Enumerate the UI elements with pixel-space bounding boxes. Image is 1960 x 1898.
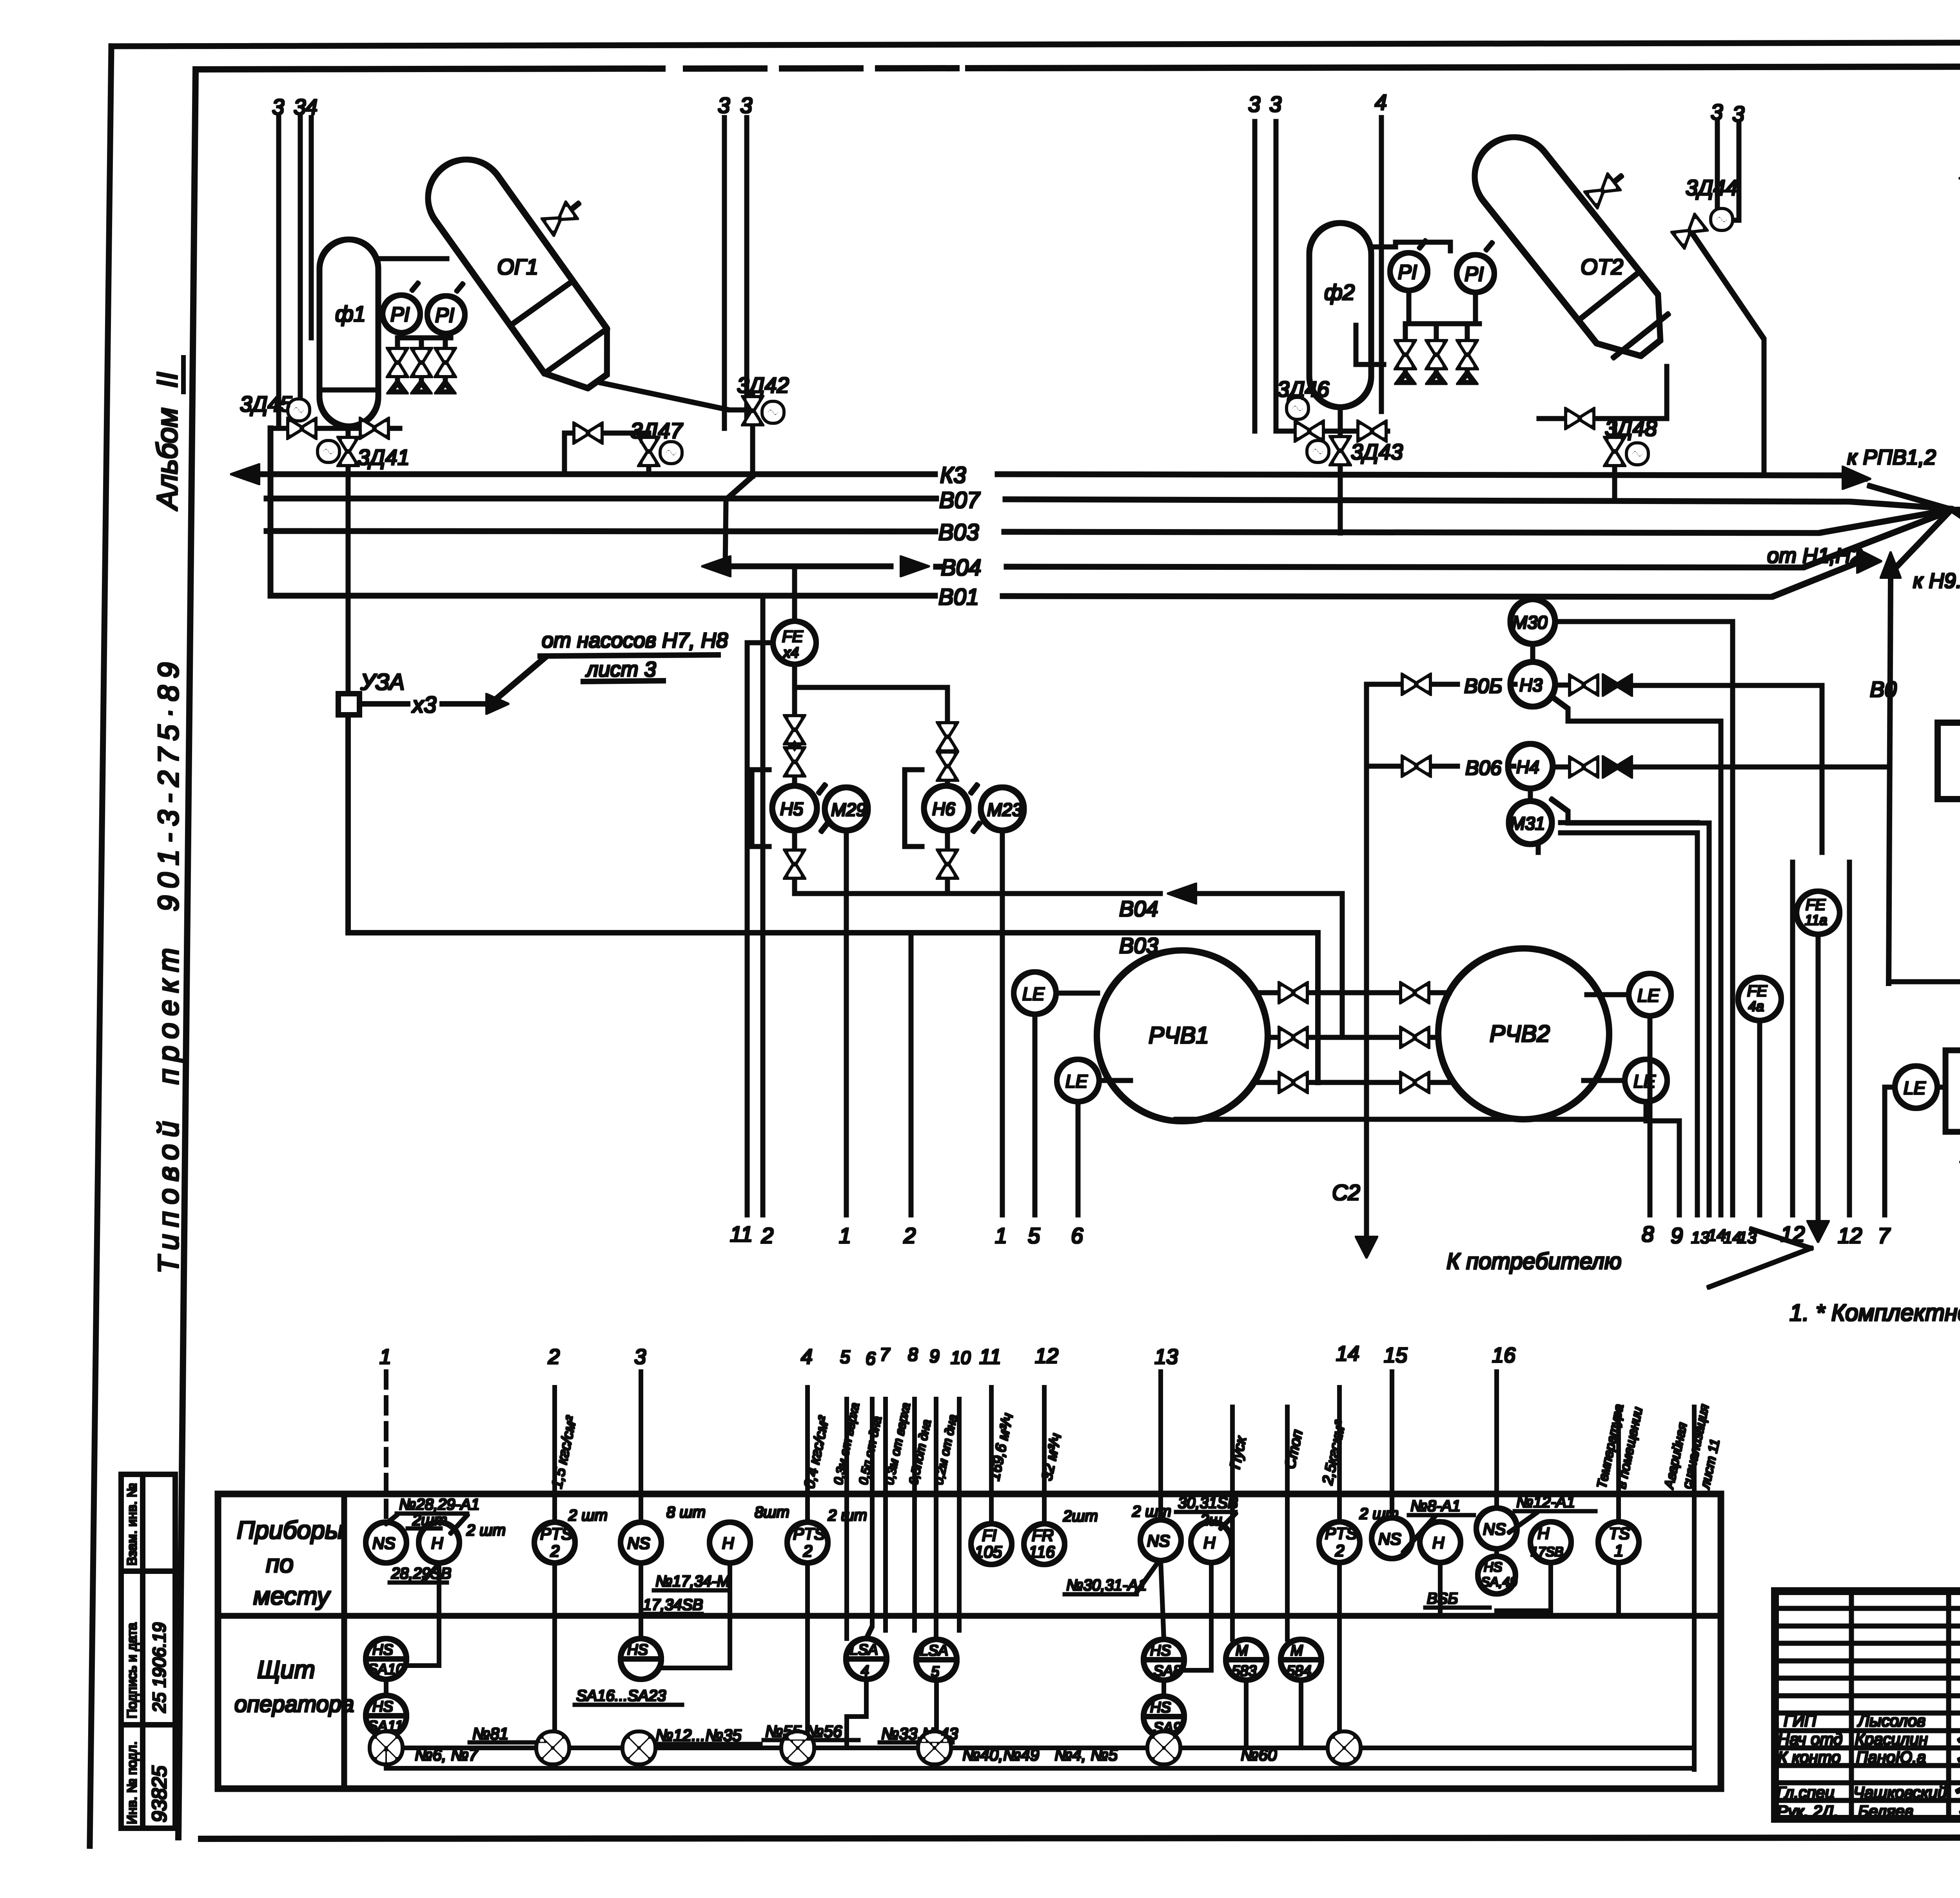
svg-text:РЧВ1: РЧВ1 [1149, 1022, 1209, 1048]
svg-text:4а: 4а [1748, 998, 1764, 1014]
svg-text:Чашковский: Чашковский [1853, 1783, 1947, 1802]
svg-text:6: 6 [1071, 1223, 1083, 1248]
svg-text:М: М [1236, 1642, 1248, 1659]
svg-text:К конто: К конто [1778, 1748, 1841, 1766]
svg-text:х3: х3 [411, 692, 436, 718]
svg-text:PTS: PTS [540, 1525, 572, 1543]
svg-text:ГИП: ГИП [1784, 1711, 1817, 1730]
svg-text:х4: х4 [782, 645, 799, 661]
svg-text:583: 583 [1232, 1663, 1256, 1679]
svg-text:С2: С2 [1332, 1180, 1360, 1205]
svg-text:Н: Н [722, 1534, 734, 1552]
svg-text:4: 4 [801, 1345, 813, 1369]
svg-text:3Д45: 3Д45 [240, 392, 292, 416]
svg-text:НS: НS [627, 1642, 648, 1658]
svg-text:3: 3 [1248, 92, 1260, 116]
svg-text:Инв. № подл.: Инв. № подл. [125, 1741, 140, 1824]
svg-text:2: 2 [903, 1223, 916, 1248]
svg-text:№12...№35: №12...№35 [655, 1726, 742, 1744]
svg-text:В0: В0 [1870, 677, 1897, 702]
svg-text:1: 1 [995, 1223, 1007, 1248]
svg-text:1. * Комплектно с установкой: 1. * Комплектно с установкой [1789, 1300, 1960, 1326]
svg-text:Щит: Щит [257, 1655, 315, 1684]
svg-text:3Д42: 3Д42 [737, 373, 789, 397]
svg-text:Подпись и дата: Подпись и дата [125, 1622, 140, 1719]
svg-text:10: 10 [951, 1347, 971, 1368]
svg-text:13: 13 [1154, 1345, 1178, 1369]
svg-text:PI: PI [1465, 263, 1484, 286]
svg-text:FI: FI [982, 1526, 997, 1545]
svg-text:Н: Н [431, 1534, 443, 1552]
svg-text:FR: FR [1032, 1526, 1054, 1545]
svg-text:В04: В04 [941, 555, 981, 580]
svg-text:2шт: 2шт [1063, 1508, 1098, 1525]
svg-text:17SВ: 17SВ [1531, 1545, 1563, 1559]
svg-text:5: 5 [840, 1347, 850, 1367]
svg-text:оператора: оператора [234, 1691, 354, 1717]
svg-text:3: 3 [294, 94, 306, 119]
svg-text:Альбом: Альбом [151, 408, 183, 511]
svg-text:2ш: 2ш [1200, 1512, 1222, 1529]
svg-text:2 шт: 2 шт [828, 1507, 867, 1524]
svg-text:ф1: ф1 [335, 301, 366, 326]
svg-text:9: 9 [1671, 1223, 1683, 1248]
svg-text:2 шт: 2 шт [1132, 1503, 1171, 1520]
svg-text:8 шт: 8 шт [666, 1504, 706, 1521]
svg-text:№4, №5: №4, №5 [1054, 1746, 1118, 1764]
svg-text:11: 11 [730, 1222, 753, 1246]
svg-text:Нач отд: Нач отд [1778, 1730, 1842, 1748]
svg-text:NS: NS [627, 1534, 650, 1552]
svg-text:В03: В03 [938, 520, 979, 545]
svg-text:SА,49: SА,49 [1481, 1575, 1517, 1590]
svg-text:М29: М29 [831, 799, 866, 820]
svg-text:5: 5 [931, 1664, 940, 1680]
svg-text:II: II [151, 372, 183, 388]
svg-text:3Д48: 3Д48 [1605, 416, 1657, 441]
svg-text:№40,№49: №40,№49 [962, 1746, 1039, 1764]
svg-text:NS: NS [1378, 1530, 1401, 1548]
svg-text:Н4: Н4 [1516, 757, 1539, 777]
svg-text:11а: 11а [1805, 912, 1827, 928]
svg-text:3: 3 [1732, 102, 1744, 126]
svg-text:НS: НS [372, 1699, 393, 1715]
svg-text:2: 2 [803, 1542, 812, 1560]
svg-text:6: 6 [866, 1348, 876, 1369]
svg-text:3: 3 [718, 93, 730, 118]
svg-text:ф2: ф2 [1324, 280, 1355, 305]
svg-text:11: 11 [979, 1345, 1001, 1369]
svg-text:№28,29-А1: №28,29-А1 [399, 1496, 480, 1513]
svg-text:Н6: Н6 [932, 799, 955, 819]
svg-text:15: 15 [1384, 1343, 1408, 1367]
svg-text:FE: FE [1747, 983, 1768, 1000]
svg-text:2: 2 [1335, 1541, 1344, 1560]
svg-text:3Д47: 3Д47 [630, 418, 683, 443]
svg-text:25 1906.19: 25 1906.19 [149, 1622, 169, 1713]
svg-text:ПаноЮ.а: ПаноЮ.а [1856, 1748, 1926, 1766]
svg-text:НS: НS [1150, 1699, 1171, 1716]
svg-text:НS: НS [1150, 1642, 1171, 1659]
svg-text:Гл.спец: Гл.спец [1777, 1783, 1835, 1802]
svg-text:В04: В04 [1119, 896, 1158, 921]
svg-text:8: 8 [1642, 1222, 1654, 1246]
svg-text:№81: №81 [472, 1724, 508, 1743]
svg-text:3: 3 [1711, 100, 1723, 124]
svg-text:Приборы: Приборы [237, 1516, 343, 1544]
svg-text:К3: К3 [940, 462, 966, 488]
svg-text:7: 7 [1878, 1223, 1891, 1248]
svg-text:ОГ1: ОГ1 [497, 254, 538, 279]
svg-text:2 шт: 2 шт [1359, 1505, 1399, 1523]
svg-text:LSА: LSА [920, 1642, 948, 1659]
svg-text:Рук. 2Д.: Рук. 2Д. [1777, 1802, 1838, 1820]
svg-text:LE: LE [1904, 1078, 1926, 1098]
svg-text:13: 13 [1691, 1228, 1710, 1247]
svg-text:PTS: PTS [793, 1525, 825, 1543]
svg-text:8шт: 8шт [755, 1504, 789, 1521]
svg-text:4: 4 [861, 1663, 869, 1679]
svg-text:№55,№56: №55,№56 [765, 1722, 842, 1740]
svg-text:В06: В06 [1465, 757, 1502, 780]
svg-text:Н: Н [1432, 1534, 1445, 1552]
svg-text:Лысолов: Лысолов [1857, 1711, 1926, 1730]
svg-text:месту: месту [253, 1582, 331, 1610]
svg-text:Н5: Н5 [780, 799, 803, 819]
svg-text:93825: 93825 [148, 1765, 171, 1822]
svg-text:ТS: ТS [1609, 1524, 1630, 1543]
svg-text:7: 7 [880, 1344, 890, 1365]
svg-text:LE: LE [1633, 1071, 1656, 1091]
svg-text:LE: LE [1637, 985, 1660, 1006]
svg-text:3: 3 [1269, 92, 1281, 116]
svg-text:NS: NS [1147, 1532, 1170, 1550]
svg-text:ОТ2: ОТ2 [1581, 254, 1623, 279]
svg-text:584: 584 [1287, 1663, 1311, 1679]
svg-text:НS: НS [1484, 1560, 1503, 1575]
svg-text:№6, №7: №6, №7 [415, 1746, 479, 1764]
svg-text:3Д43: 3Д43 [1351, 439, 1403, 464]
svg-text:PTS: PTS [1325, 1524, 1357, 1543]
svg-text:SА8: SА8 [1153, 1663, 1181, 1679]
svg-text:3Д44: 3Д44 [1686, 175, 1738, 200]
svg-text:3: 3 [740, 93, 752, 118]
svg-text:№17,34-М: №17,34-М [655, 1573, 730, 1590]
svg-text:Н: Н [1537, 1524, 1550, 1543]
svg-text:Беляев: Беляев [1858, 1802, 1913, 1820]
svg-text:НS: НS [372, 1642, 393, 1658]
svg-text:4: 4 [1375, 90, 1387, 114]
svg-text:116: 116 [1029, 1543, 1055, 1561]
svg-text:М: М [1290, 1642, 1303, 1659]
svg-text:РЧВ2: РЧВ2 [1490, 1021, 1550, 1047]
svg-text:3Д41: 3Д41 [358, 445, 410, 470]
svg-text:В0Б: В0Б [1464, 675, 1502, 698]
svg-text:8: 8 [908, 1344, 918, 1365]
svg-text:к Н9... Н12: к Н9... Н12 [1913, 569, 1960, 593]
svg-text:3Д46: 3Д46 [1277, 377, 1330, 401]
svg-text:LSА: LSА [850, 1642, 878, 1658]
svg-text:16: 16 [1492, 1343, 1516, 1367]
svg-text:PI: PI [1398, 261, 1417, 284]
svg-text:Красилин: Красилин [1855, 1730, 1928, 1748]
svg-text:3: 3 [272, 94, 284, 119]
svg-text:4: 4 [305, 94, 318, 119]
svg-text:14: 14 [1336, 1342, 1359, 1365]
svg-text:12: 12 [1838, 1223, 1862, 1248]
svg-text:12: 12 [1780, 1222, 1805, 1246]
svg-text:PI: PI [390, 303, 410, 326]
svg-text:ВSБ: ВSБ [1427, 1590, 1458, 1607]
svg-text:2: 2 [548, 1345, 560, 1369]
svg-text:1: 1 [1614, 1541, 1623, 1560]
svg-text:от Н1,Н2: от Н1,Н2 [1767, 544, 1862, 567]
svg-text:лист 3: лист 3 [585, 658, 656, 681]
svg-text:17,34SВ: 17,34SВ [643, 1596, 703, 1613]
svg-text:2 шт: 2 шт [466, 1522, 506, 1539]
svg-text:PI: PI [435, 304, 454, 327]
svg-text:3: 3 [634, 1345, 646, 1369]
svg-text:№33,№43: №33,№43 [881, 1724, 958, 1743]
svg-text:NS: NS [1483, 1520, 1506, 1538]
svg-text:2: 2 [550, 1542, 559, 1560]
svg-text:NS: NS [372, 1534, 395, 1552]
svg-text:5: 5 [1028, 1223, 1040, 1248]
svg-text:LE: LE [1065, 1071, 1088, 1091]
svg-text:105: 105 [975, 1543, 1002, 1561]
svg-text:1: 1 [839, 1223, 851, 1248]
svg-text:М30: М30 [1512, 612, 1548, 633]
svg-text:В01: В01 [938, 584, 979, 610]
svg-text:9: 9 [929, 1346, 940, 1366]
svg-text:Взам. инв. №: Взам. инв. № [125, 1483, 140, 1566]
svg-text:30,31SВ: 30,31SВ [1178, 1494, 1238, 1512]
svg-text:28,29SВ: 28,29SВ [391, 1565, 451, 1582]
svg-text:УЗА: УЗА [360, 669, 405, 695]
svg-text:2: 2 [761, 1223, 773, 1248]
svg-text:К потребителю: К потребителю [1446, 1249, 1622, 1274]
svg-text:FE: FE [782, 627, 804, 645]
svg-text:М23: М23 [987, 799, 1022, 820]
svg-text:LE: LE [1022, 984, 1045, 1004]
svg-text:2 шт: 2 шт [568, 1507, 608, 1524]
svg-text:12: 12 [1035, 1344, 1058, 1368]
svg-text:к РПВ1,2: к РПВ1,2 [1847, 446, 1936, 469]
svg-text:В07: В07 [939, 488, 981, 513]
svg-text:М31: М31 [1510, 813, 1545, 834]
svg-text:SА16...SА23: SА16...SА23 [576, 1687, 666, 1704]
svg-text:FE: FE [1806, 896, 1826, 914]
svg-text:1: 1 [379, 1345, 391, 1369]
svg-text:SА10: SА10 [368, 1661, 404, 1678]
svg-text:Н3: Н3 [1519, 675, 1543, 695]
svg-text:№8-А1: №8-А1 [1410, 1497, 1461, 1515]
svg-text:Н: Н [1203, 1534, 1216, 1552]
svg-text:№12-А1: №12-А1 [1516, 1494, 1575, 1511]
svg-text:№30,31-А1: №30,31-А1 [1066, 1577, 1147, 1594]
svg-text:№60: №60 [1241, 1746, 1277, 1764]
svg-text:по: по [266, 1550, 294, 1578]
svg-text:от насосов Н7, Н8: от насосов Н7, Н8 [542, 629, 728, 652]
